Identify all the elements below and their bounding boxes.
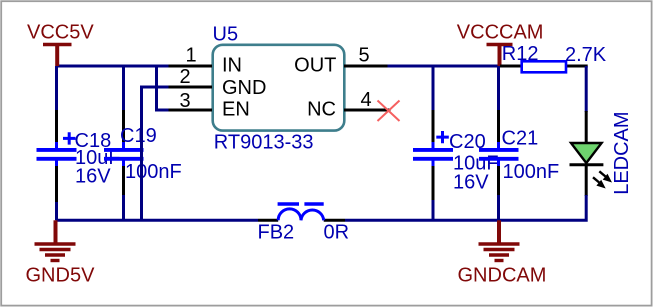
svg-text:GND: GND [222,77,266,99]
ferrite bead FB2 [258,204,345,220]
wire C19 bottom to rail [122,194,125,220]
pin 2 GND [169,86,213,89]
svg-text:GND5V: GND5V [26,264,96,286]
svg-text:0R: 0R [324,222,350,244]
wire C20 bottom to rail [432,199,435,220]
wire C21 bottom to rail [497,194,500,220]
svg-text:GNDCAM: GNDCAM [458,264,547,286]
svg-text:R12: R12 [502,43,539,65]
svg-text:3: 3 [179,90,190,112]
svg-text:NC: NC [307,99,336,121]
svg-text:C21: C21 [502,127,539,149]
svg-text:OUT: OUT [294,55,336,77]
svg-text:5: 5 [358,45,369,67]
svg-text:2: 2 [179,66,190,88]
svg-text:C19: C19 [120,125,157,147]
pin 1 IN [169,65,213,68]
svg-text:FB2: FB2 [258,222,295,244]
pin 3 EN [169,109,213,112]
svg-text:LEDCAM: LEDCAM [611,111,633,194]
svg-text:2.7K: 2.7K [565,44,607,66]
svg-text:IN: IN [222,54,242,76]
wire VCC5V net (top-left horizontal to pin 1) [56,65,169,68]
resistor R12 [500,61,588,72]
svg-text:100nF: 100nF [125,161,182,183]
wire C21 branch [497,66,500,111]
svg-text:100nF: 100nF [503,161,560,183]
no-connect X on pin 4 [378,101,400,122]
wire EN tie to IN [157,65,169,111]
wire C20 branch [432,66,435,111]
wire C18 bottom to rail [55,201,58,220]
capacitor C21 [479,110,519,195]
ground symbol GND5V [35,220,76,260]
svg-text:16V: 16V [75,165,111,187]
op-amp U5 body [213,45,345,131]
wire ground rail left (GND5V net) [56,219,258,222]
wire GND pin 2 to ground rail [142,87,169,220]
wire ground rail right (GNDCAM net) [345,195,586,220]
svg-text:16V: 16V [453,172,489,194]
LED LEDCAM [570,111,613,196]
pin 5 OUT [344,65,388,68]
svg-text:RT9013-33: RT9013-33 [214,131,314,153]
wire R12 to LED anode [585,66,588,112]
svg-text:U5: U5 [213,23,239,45]
svg-text:VCC5V: VCC5V [27,22,94,44]
svg-text:EN: EN [222,99,250,121]
power symbol VCCCAM [487,45,513,67]
wire C19 branch [122,66,125,111]
capacitor C20 [413,110,453,200]
wire OUT net [388,65,501,68]
svg-text:1: 1 [185,45,196,67]
pin 4 NC [344,109,391,112]
wire C18 branch [55,66,58,111]
ground symbol GNDCAM [479,220,520,260]
power symbol VCC5V [43,45,72,67]
svg-text:4: 4 [360,89,371,111]
svg-text:VCCCAM: VCCCAM [457,22,544,44]
capacitor C18 [37,110,77,202]
capacitor C19 [104,110,144,195]
